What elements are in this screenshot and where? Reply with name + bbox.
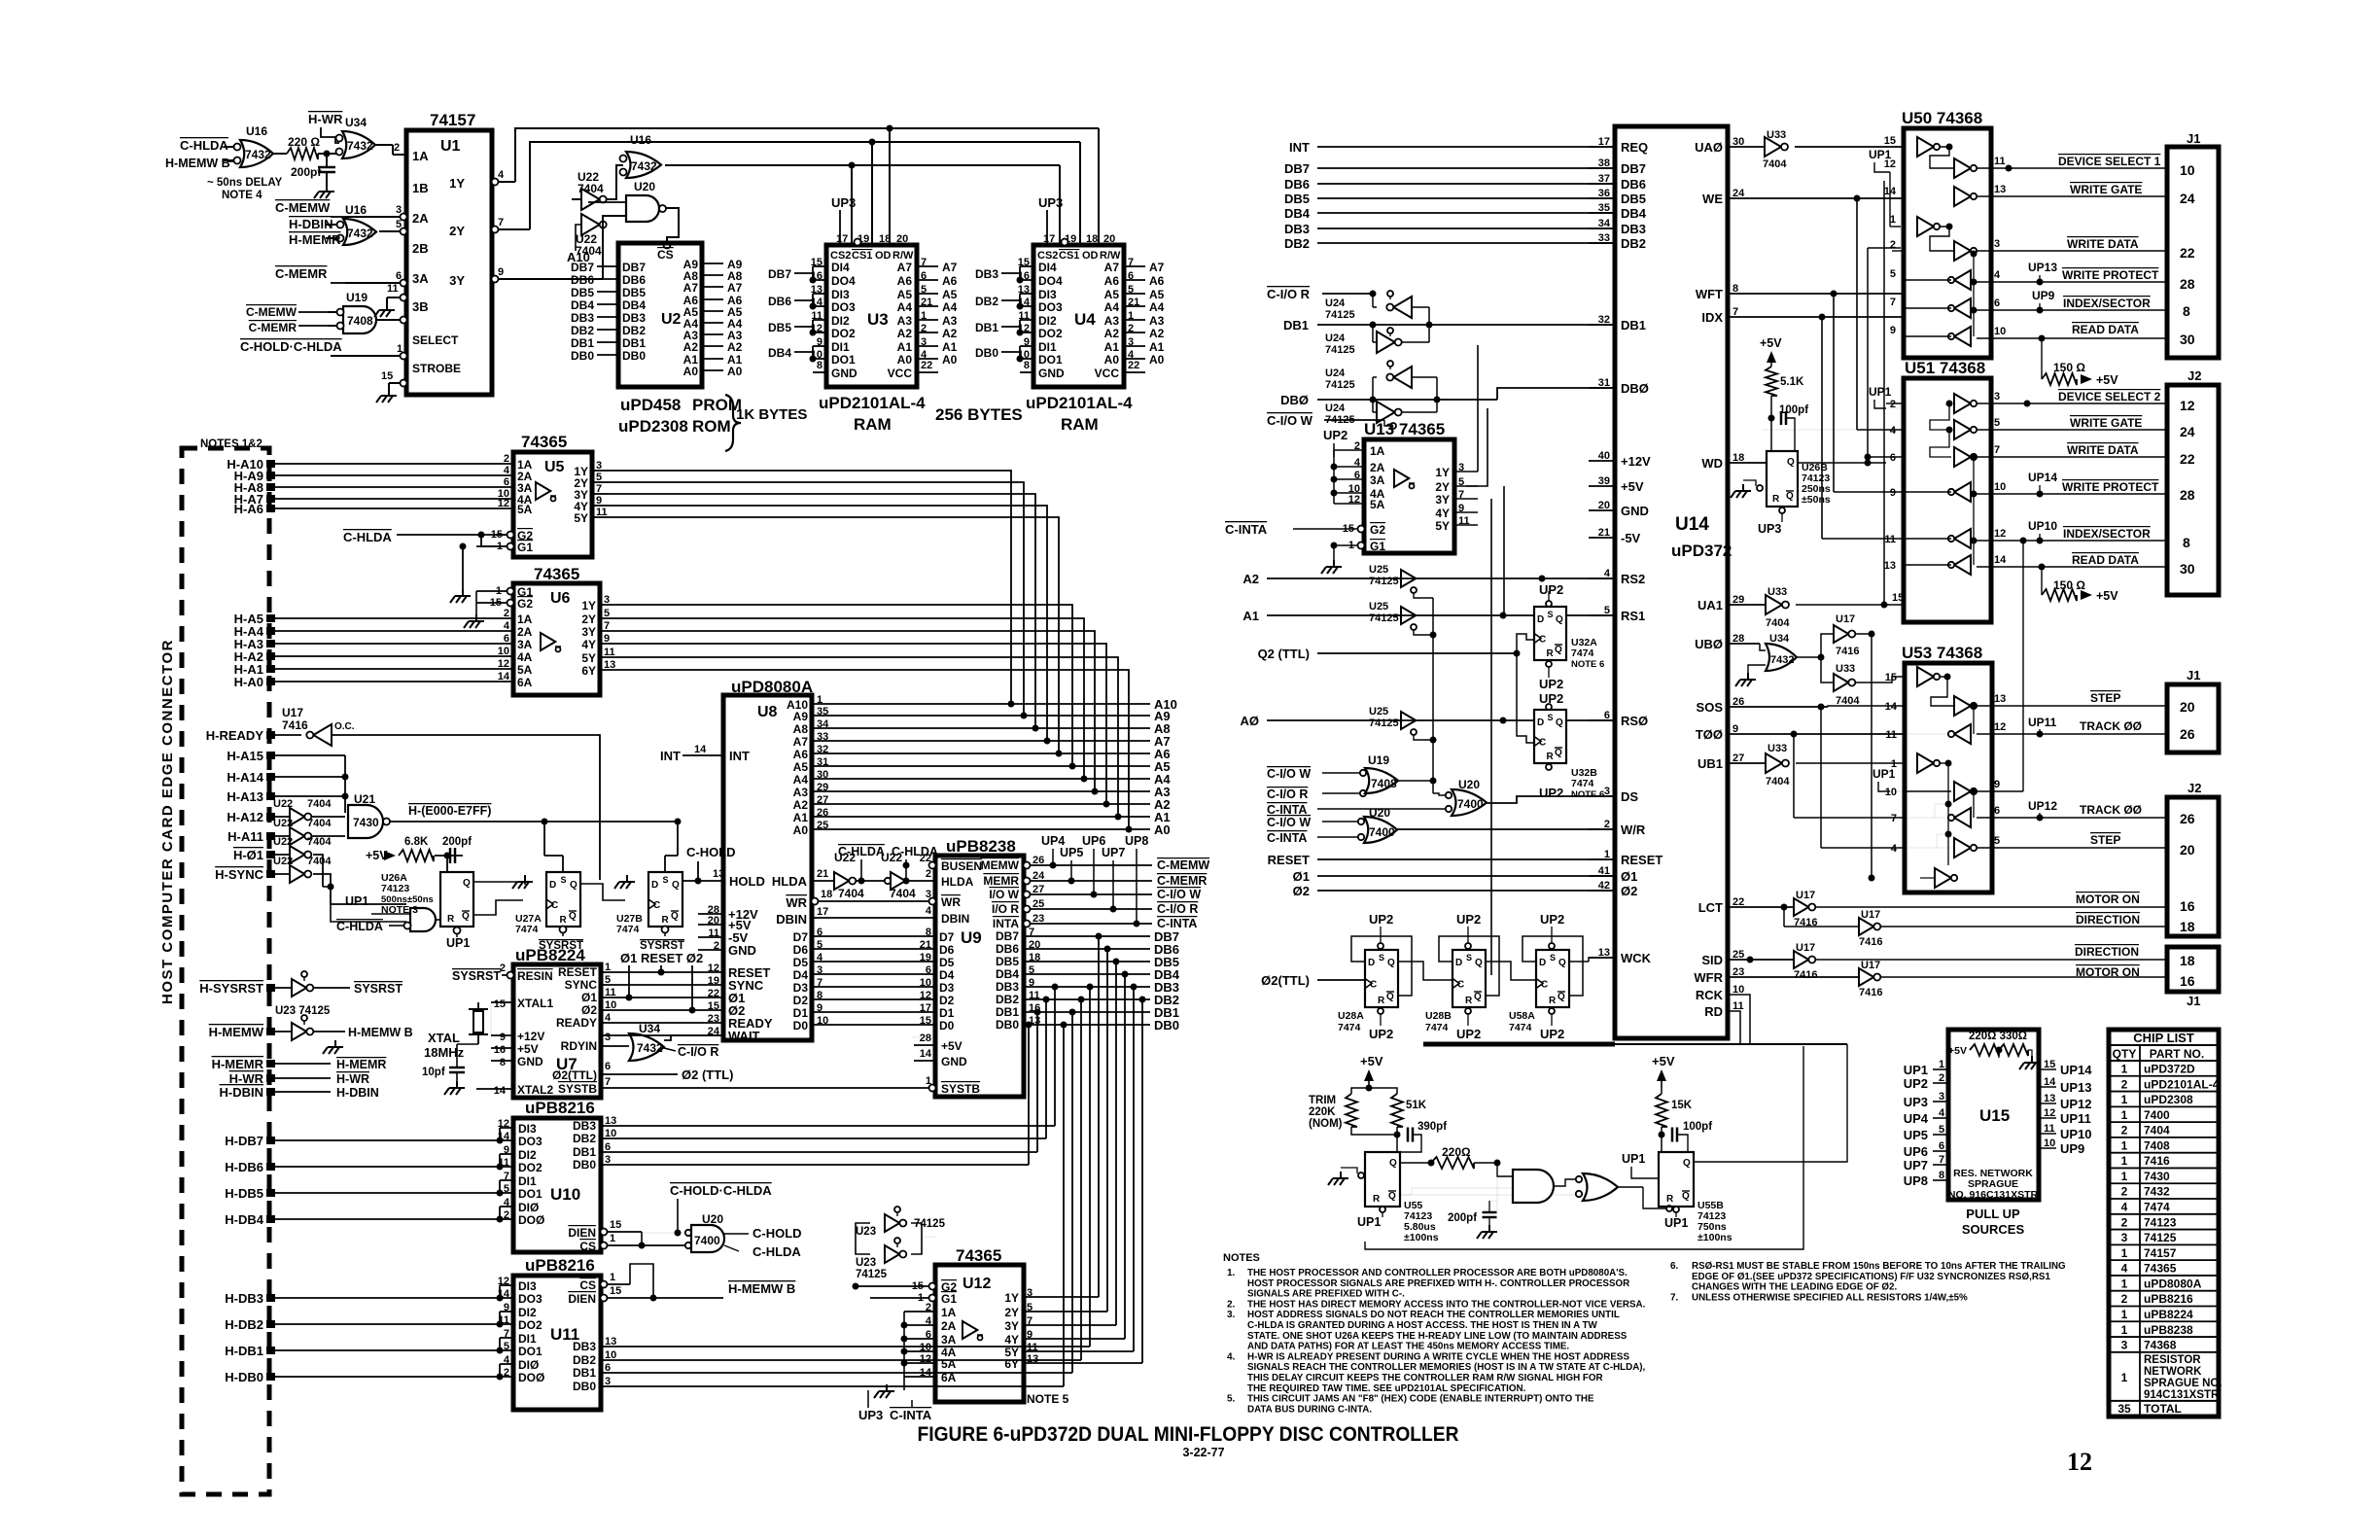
- svg-text:C-HOLD·C-HLDA: C-HOLD·C-HLDA: [670, 1183, 772, 1198]
- svg-text:U23: U23: [856, 1226, 876, 1238]
- svg-text:UP2: UP2: [1904, 1076, 1928, 1091]
- svg-text:8: 8: [1024, 360, 1030, 371]
- svg-text:220Ω 330Ω: 220Ω 330Ω: [1969, 1031, 2027, 1042]
- svg-text:H-DB4: H-DB4: [225, 1212, 263, 1227]
- svg-text:5Y: 5Y: [574, 511, 588, 525]
- svg-text:DI3: DI3: [518, 1279, 537, 1293]
- wire phi1 vertical: [628, 965, 630, 997]
- svg-text:5: 5: [396, 219, 402, 230]
- svg-text:2: 2: [2121, 1077, 2128, 1091]
- svg-text:7432: 7432: [347, 139, 373, 153]
- svg-text:3Y: 3Y: [581, 625, 596, 639]
- U13 buffer symbol: [1394, 470, 1415, 489]
- svg-text:A2: A2: [897, 327, 913, 340]
- svg-text:H-A0: H-A0: [234, 675, 263, 689]
- svg-text:17: 17: [817, 906, 828, 918]
- svg-text:UP1: UP1: [446, 936, 470, 950]
- svg-text:7404: 7404: [1766, 776, 1790, 787]
- svg-text:A1: A1: [1242, 609, 1259, 623]
- svg-text:U33: U33: [1767, 586, 1787, 598]
- svg-text:WRITE DATA: WRITE DATA: [2067, 237, 2139, 251]
- svg-text:C-HLDA: C-HLDA: [180, 138, 228, 153]
- svg-text:THE HOST HAS DIRECT MEMORY ACC: THE HOST HAS DIRECT MEMORY ACCESS INTO T…: [1247, 1299, 1646, 1310]
- U15 pin UP9: [2039, 1147, 2056, 1149]
- svg-text:UP3: UP3: [831, 195, 856, 210]
- wire A buffer enable vertical: [1432, 598, 1434, 793]
- svg-text:DB7: DB7: [622, 261, 646, 274]
- svg-text:2: 2: [2121, 1292, 2128, 1306]
- svg-text:R: R: [1666, 1194, 1674, 1205]
- svg-text:uPD458: uPD458: [620, 396, 681, 414]
- svg-text:A0: A0: [942, 353, 958, 367]
- svg-text:SYNC: SYNC: [565, 978, 598, 992]
- svg-text:D5: D5: [939, 956, 955, 969]
- svg-text:D: D: [1537, 717, 1544, 728]
- svg-text:H-MEMR: H-MEMR: [336, 1058, 386, 1071]
- U1 pin 3A stub: [345, 282, 406, 284]
- svg-text:UP2: UP2: [1539, 786, 1563, 800]
- svg-text:1: 1: [610, 1272, 615, 1283]
- svg-text:DB3: DB3: [571, 311, 594, 325]
- svg-text:7432: 7432: [245, 148, 271, 161]
- svg-text:A6: A6: [1149, 274, 1165, 288]
- svg-text:TOTAL: TOTAL: [2144, 1402, 2182, 1416]
- svg-text:CHANGES WITH THE LEADING EDGE: CHANGES WITH THE LEADING EDGE OF Ø2.: [1692, 1282, 1897, 1293]
- svg-text:DO4: DO4: [831, 274, 856, 288]
- svg-text:DB2: DB2: [573, 1132, 596, 1145]
- svg-text:U16: U16: [345, 203, 367, 217]
- svg-text:PROM: PROM: [692, 396, 742, 414]
- svg-text:INTA: INTA: [993, 917, 1019, 930]
- svg-text:1B: 1B: [412, 181, 429, 195]
- svg-text:CS: CS: [579, 1240, 596, 1253]
- wire H-READY line: [332, 735, 600, 880]
- wire 220ohm to AND gate: [1474, 1162, 1497, 1164]
- svg-text:UP9: UP9: [2060, 1141, 2084, 1156]
- gate U16 7432 (c): [620, 133, 662, 178]
- svg-text:DI1: DI1: [1038, 340, 1057, 354]
- svg-text:2: 2: [1939, 1072, 1944, 1084]
- svg-text:UP8: UP8: [1904, 1173, 1928, 1188]
- svg-text:DB1: DB1: [573, 1366, 596, 1380]
- ground at U12 inputs: [886, 1384, 888, 1391]
- svg-text:Q: Q: [1682, 1191, 1690, 1202]
- svg-text:7474: 7474: [1509, 1022, 1532, 1033]
- svg-text:UP14: UP14: [2028, 471, 2057, 484]
- svg-text:3A: 3A: [517, 638, 533, 651]
- wire phi2 vertical: [691, 965, 693, 1010]
- wire U53 internal vertical: [1947, 763, 1949, 865]
- wire U58A Q to WCK: [1569, 961, 1589, 962]
- svg-text:2A: 2A: [941, 1319, 957, 1333]
- svg-text:6: 6: [396, 270, 402, 282]
- svg-text:WE: WE: [1702, 192, 1723, 206]
- capacitor 200pf (one-shot): [435, 855, 463, 857]
- svg-text:INT: INT: [1289, 140, 1310, 155]
- svg-text:2: 2: [2121, 1215, 2128, 1229]
- svg-text:74365: 74365: [956, 1246, 1001, 1265]
- svg-text:S: S: [1550, 953, 1556, 962]
- svg-text:+5V: +5V: [1360, 1054, 1383, 1068]
- svg-text:DBIN: DBIN: [941, 912, 969, 926]
- inverter U22 7404 (2): [273, 836, 332, 863]
- svg-text:DB7: DB7: [571, 261, 594, 274]
- svg-text:A5: A5: [793, 760, 809, 774]
- svg-text:Q: Q: [1388, 1191, 1396, 1202]
- svg-text:+5V: +5V: [1760, 336, 1782, 350]
- svg-text:U28A: U28A: [1338, 1010, 1364, 1022]
- svg-text:GND: GND: [1621, 504, 1649, 518]
- wire C-INTA stub up: [911, 1400, 913, 1408]
- svg-text:INDEX/SECTOR: INDEX/SECTOR: [2063, 527, 2151, 541]
- wire U12 6Y up to data bus: [1141, 999, 1143, 1363]
- svg-text:18: 18: [821, 889, 832, 900]
- svg-text:16: 16: [2180, 973, 2195, 989]
- svg-text:MEMR: MEMR: [983, 874, 1019, 888]
- one-shot U55 74123: [1365, 1152, 1400, 1207]
- svg-text:A3: A3: [942, 314, 958, 328]
- wire WE branch down to U51: [1854, 195, 1861, 202]
- gate U34 7432: [336, 116, 376, 158]
- svg-text:U9: U9: [961, 928, 982, 947]
- svg-text:6: 6: [1890, 452, 1896, 464]
- svg-text:DIRECTION: DIRECTION: [2075, 945, 2139, 959]
- IC U5 74365: [513, 433, 592, 557]
- svg-text:H-DB2: H-DB2: [225, 1317, 263, 1332]
- svg-text:RESET: RESET: [1621, 853, 1662, 867]
- svg-text:7: 7: [1994, 444, 2000, 456]
- inverter U33 7404 (UA0): [1763, 129, 1788, 170]
- svg-text:SYSTB: SYSTB: [558, 1082, 597, 1096]
- svg-text:24: 24: [2180, 424, 2195, 439]
- svg-text:uPB8238: uPB8238: [2144, 1323, 2193, 1337]
- svg-text:A4: A4: [793, 773, 809, 787]
- svg-text:GND: GND: [941, 1055, 967, 1068]
- svg-text:18: 18: [2180, 953, 2195, 968]
- svg-text:DB4: DB4: [1621, 206, 1647, 221]
- inverter U17 7416 (H-READY): [282, 706, 355, 746]
- wire U19 out to U1 3B: [376, 319, 406, 321]
- svg-text:DI3: DI3: [518, 1122, 537, 1136]
- svg-text:TRACK ØØ: TRACK ØØ: [2080, 719, 2142, 733]
- svg-text:A6: A6: [897, 274, 913, 288]
- wire top bus R/W to U3 pin20 and U4 pin20: [890, 127, 1099, 129]
- svg-text:18: 18: [879, 233, 891, 245]
- svg-text:U50 74368: U50 74368: [1902, 109, 1982, 127]
- svg-text:74125: 74125: [1325, 379, 1355, 391]
- svg-text:6: 6: [926, 964, 931, 976]
- svg-text:THIS CIRCUIT JAMS AN "F8" (HEX: THIS CIRCUIT JAMS AN "F8" (HEX) CODE (EN…: [1247, 1394, 1594, 1405]
- buffer U23 74125 (SYSRST): [292, 971, 313, 997]
- svg-text:4: 4: [498, 169, 505, 181]
- svg-text:7474: 7474: [1571, 647, 1594, 659]
- svg-text:3: 3: [1994, 238, 2000, 250]
- svg-text:5: 5: [1939, 1124, 1944, 1136]
- svg-text:R: R: [1547, 752, 1555, 762]
- svg-text:A2: A2: [1242, 572, 1259, 586]
- svg-text:SYSRST: SYSRST: [354, 982, 402, 996]
- svg-text:D5: D5: [793, 956, 809, 969]
- svg-text:7404: 7404: [307, 856, 332, 867]
- svg-text:7400: 7400: [1457, 797, 1484, 811]
- svg-text:H-A11: H-A11: [227, 829, 263, 844]
- svg-text:A5: A5: [942, 288, 958, 301]
- svg-text:A0: A0: [793, 823, 809, 837]
- svg-text:DI4: DI4: [1038, 261, 1057, 274]
- svg-text:UP2: UP2: [1456, 912, 1481, 927]
- svg-text:Q: Q: [1558, 958, 1566, 968]
- svg-text:C-INTA: C-INTA: [1157, 917, 1197, 930]
- wire vertical bundle A: [1871, 634, 1872, 878]
- svg-text:4Y: 4Y: [1435, 507, 1450, 520]
- wire U34 to WAIT: [664, 1035, 723, 1040]
- wire U34 out to U1 1A pin2: [375, 144, 393, 146]
- flip-flop U32B 7474: [1534, 710, 1566, 763]
- svg-text:U25: U25: [1369, 706, 1388, 717]
- svg-text:17: 17: [1043, 233, 1055, 245]
- svg-text:7404: 7404: [307, 798, 332, 810]
- svg-text:1: 1: [610, 1233, 615, 1244]
- svg-text:26: 26: [2180, 811, 2195, 826]
- svg-text:74125: 74125: [1369, 612, 1399, 624]
- svg-text:RCK: RCK: [1696, 988, 1724, 1002]
- svg-text:DO3: DO3: [518, 1292, 542, 1306]
- svg-text:3.: 3.: [1227, 1310, 1236, 1320]
- svg-text:DB0: DB0: [571, 349, 594, 363]
- svg-text:U25: U25: [1369, 601, 1388, 612]
- gate U20 7400 (W/R): [1358, 806, 1397, 843]
- svg-text:2: 2: [2121, 1124, 2128, 1137]
- capacitor 390pf: [1394, 1132, 1401, 1138]
- svg-text:UP12: UP12: [2028, 799, 2057, 813]
- svg-text:NOTE 6: NOTE 6: [1571, 659, 1604, 670]
- svg-text:A3: A3: [1149, 314, 1165, 328]
- svg-text:D: D: [549, 880, 556, 891]
- svg-text:RS1: RS1: [1621, 609, 1645, 623]
- svg-text:RSØ: RSØ: [1621, 714, 1648, 728]
- svg-text:2A: 2A: [412, 211, 429, 226]
- svg-text:J2: J2: [2187, 781, 2201, 795]
- svg-text:Q: Q: [1683, 1158, 1691, 1169]
- svg-text:uPD2308: uPD2308: [618, 417, 688, 436]
- ground at U34 UB0: [1748, 665, 1766, 673]
- svg-text:D3: D3: [793, 981, 809, 995]
- svg-text:A0: A0: [1104, 353, 1120, 367]
- svg-text:SYSTB: SYSTB: [941, 1082, 980, 1096]
- svg-text:8: 8: [500, 1057, 506, 1068]
- svg-text:4Y: 4Y: [1004, 1333, 1019, 1347]
- svg-text:AØ: AØ: [1241, 714, 1260, 728]
- svg-text:C-HLDA: C-HLDA: [336, 920, 383, 933]
- svg-text:uPB8224: uPB8224: [2144, 1308, 2193, 1321]
- svg-text:2: 2: [504, 453, 509, 465]
- svg-text:7430: 7430: [2144, 1170, 2170, 1183]
- svg-text:74365: 74365: [2144, 1262, 2177, 1276]
- svg-text:Q: Q: [1555, 645, 1562, 655]
- svg-text:3: 3: [1939, 1091, 1944, 1102]
- U1 STROBE pin 15 + ground: [389, 382, 406, 384]
- svg-text:7416: 7416: [282, 718, 308, 732]
- svg-text:74125: 74125: [1325, 344, 1355, 356]
- svg-text:+12V: +12V: [517, 1030, 544, 1043]
- svg-text:H-A12: H-A12: [227, 810, 263, 824]
- svg-text:A2: A2: [683, 340, 699, 354]
- wire WFT branch down: [1831, 291, 1837, 297]
- svg-text:A1: A1: [1149, 340, 1165, 354]
- svg-text:7474: 7474: [515, 924, 539, 935]
- svg-text:A2: A2: [942, 327, 958, 340]
- svg-text:R: R: [1378, 996, 1385, 1006]
- svg-text:UP3: UP3: [1904, 1095, 1928, 1109]
- svg-text:S: S: [663, 875, 669, 885]
- svg-text:UP1: UP1: [1904, 1063, 1928, 1077]
- svg-text:2B: 2B: [412, 241, 429, 256]
- svg-text:A1: A1: [793, 811, 809, 824]
- svg-text:12: 12: [1884, 158, 1896, 170]
- svg-text:74125: 74125: [1325, 309, 1355, 321]
- svg-text:7404: 7404: [1763, 158, 1787, 170]
- svg-text:C-I/O R: C-I/O R: [678, 1045, 718, 1059]
- wire SOS branch to U53 pin4: [1820, 707, 1822, 848]
- svg-text:H-WR: H-WR: [308, 112, 343, 126]
- svg-text:17: 17: [920, 1002, 931, 1014]
- svg-text:SIGNALS ARE PREFIXED WITH C-.: SIGNALS ARE PREFIXED WITH C-.: [1247, 1289, 1405, 1300]
- svg-text:1: 1: [1891, 758, 1897, 770]
- svg-text:STEP: STEP: [2090, 691, 2120, 705]
- svg-text:A3: A3: [1104, 314, 1120, 328]
- svg-text:6: 6: [605, 1061, 611, 1072]
- svg-text:CS1: CS1: [1059, 250, 1079, 262]
- svg-text:UP14: UP14: [2060, 1063, 2092, 1077]
- svg-text:C-MEMR: C-MEMR: [275, 266, 328, 281]
- svg-text:10: 10: [2180, 162, 2195, 178]
- svg-text:15K: 15K: [1671, 1100, 1693, 1111]
- svg-text:D4: D4: [939, 968, 955, 982]
- svg-text:uPD2308: uPD2308: [2144, 1093, 2193, 1106]
- svg-text:6.: 6.: [1670, 1261, 1679, 1272]
- svg-text:J1: J1: [2187, 668, 2200, 682]
- one-shot U55B 74123: [1659, 1152, 1694, 1207]
- svg-text:15: 15: [610, 1285, 621, 1297]
- svg-text:SID: SID: [1701, 953, 1723, 967]
- svg-text:2: 2: [2121, 1185, 2128, 1199]
- svg-text:H-Ø1: H-Ø1: [233, 848, 263, 862]
- svg-text:S: S: [1548, 610, 1554, 619]
- svg-text:A7: A7: [897, 261, 913, 274]
- net H-(E000-E7FF): [390, 821, 544, 822]
- svg-text:20: 20: [1103, 233, 1115, 245]
- ground at U27B: [626, 875, 628, 882]
- svg-text:11: 11: [1732, 1000, 1744, 1012]
- svg-text:G2: G2: [1370, 523, 1385, 537]
- svg-text:S: S: [1379, 953, 1384, 962]
- svg-text:5: 5: [605, 974, 611, 986]
- svg-text:+12V: +12V: [1621, 454, 1651, 469]
- svg-text:DB4: DB4: [571, 298, 594, 312]
- svg-text:74123: 74123: [381, 883, 409, 894]
- svg-text:D2: D2: [939, 994, 955, 1007]
- svg-text:WRITE GATE: WRITE GATE: [2070, 416, 2142, 430]
- svg-text:WR: WR: [786, 895, 807, 910]
- svg-text:H-DBIN: H-DBIN: [289, 217, 333, 231]
- svg-text:10: 10: [605, 999, 616, 1011]
- ground at U13 G1: [1333, 545, 1335, 560]
- svg-text:914C131XSTR: 914C131XSTR: [2144, 1389, 2220, 1401]
- svg-text:DB6: DB6: [1284, 177, 1310, 192]
- svg-text:WFR: WFR: [1694, 970, 1723, 985]
- svg-text:D: D: [1368, 958, 1375, 968]
- svg-text:DIEN: DIEN: [568, 1226, 596, 1240]
- svg-text:14: 14: [1994, 554, 2007, 566]
- buffer U23 74125 (b): [885, 1238, 906, 1263]
- buffer U25 74125 (A2): [1369, 564, 1433, 598]
- svg-text:6A: 6A: [941, 1371, 957, 1384]
- svg-text:H-A13: H-A13: [227, 789, 263, 804]
- svg-text:U23: U23: [856, 1257, 876, 1269]
- svg-text:1A: 1A: [412, 149, 429, 163]
- svg-text:RAM: RAM: [1061, 415, 1099, 434]
- svg-text:SPRAGUE NO.: SPRAGUE NO.: [2144, 1378, 2222, 1389]
- svg-text:STEP: STEP: [2090, 833, 2120, 847]
- svg-text:7408: 7408: [2144, 1138, 2170, 1152]
- svg-text:DO3: DO3: [518, 1135, 542, 1148]
- svg-text:1: 1: [2121, 1323, 2128, 1337]
- wire IDX row: [1728, 316, 1904, 318]
- svg-text:10: 10: [2044, 1137, 2055, 1149]
- svg-text:5A: 5A: [517, 663, 533, 677]
- svg-text:1Y: 1Y: [581, 599, 596, 612]
- svg-text:WD: WD: [1701, 456, 1723, 471]
- svg-text:A0: A0: [1154, 822, 1171, 837]
- svg-text:C-MEMW: C-MEMW: [275, 200, 331, 215]
- svg-text:H-MEMR: H-MEMR: [289, 232, 341, 247]
- svg-text:DB0: DB0: [996, 1018, 1019, 1032]
- svg-text:TRACK ØØ: TRACK ØØ: [2080, 803, 2142, 817]
- svg-text:STROBE: STROBE: [412, 362, 461, 375]
- wire U28A QB feedback to D: [1351, 936, 1412, 996]
- IC U2 uPD458/uPD2308: [618, 243, 702, 387]
- buffer U24 74125 (3): [1325, 361, 1437, 391]
- inverter U33 7404 (UB0 down): [1821, 657, 1860, 707]
- svg-text:7474: 7474: [616, 924, 640, 935]
- svg-text:DO4: DO4: [1038, 274, 1063, 288]
- svg-text:H-A15: H-A15: [227, 749, 263, 763]
- svg-text:DB1: DB1: [1283, 318, 1309, 332]
- svg-text:+5V: +5V: [517, 1042, 539, 1056]
- svg-text:U34: U34: [639, 1022, 660, 1035]
- svg-text:10: 10: [920, 977, 931, 989]
- svg-text:7400: 7400: [694, 1234, 720, 1247]
- svg-text:1A: 1A: [941, 1306, 957, 1319]
- svg-text:Ø2 (TTL): Ø2 (TTL): [682, 1067, 733, 1082]
- IC U9 uPB8238: [935, 837, 1024, 1097]
- svg-text:14: 14: [2044, 1076, 2056, 1088]
- svg-text:20: 20: [896, 233, 908, 245]
- svg-text:A9: A9: [793, 710, 809, 723]
- resistor 220 ohm (U55): [1400, 1162, 1431, 1164]
- svg-text:A0: A0: [897, 353, 913, 367]
- svg-text:XTAL: XTAL: [428, 1031, 460, 1045]
- svg-text:U17: U17: [1861, 909, 1880, 921]
- svg-text:DB6: DB6: [768, 295, 791, 308]
- svg-text:11: 11: [1994, 156, 2006, 167]
- svg-text:UP11: UP11: [2060, 1111, 2091, 1126]
- svg-text:DB2: DB2: [573, 1353, 596, 1367]
- svg-text:74157: 74157: [430, 111, 475, 129]
- net C-HLDA out: [724, 1245, 739, 1251]
- svg-text:INT: INT: [660, 749, 681, 763]
- wire T00 branch to U53 pin7: [1793, 734, 1795, 818]
